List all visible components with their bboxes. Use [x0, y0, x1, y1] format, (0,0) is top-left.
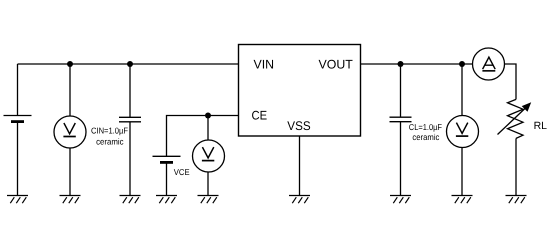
- battery B1 (input supply): [4, 116, 32, 196]
- wire capacitor CL bottom: [400, 122, 402, 196]
- wire RL bottom: [515, 138, 517, 195]
- wire battery drop: [17, 64, 19, 116]
- wire voltmeter V3 top: [461, 64, 463, 116]
- svg-text:VOUT: VOUT: [319, 58, 354, 72]
- wire voltmeter V1 bottom: [69, 148, 71, 196]
- ground (VSS): [289, 196, 310, 204]
- wire voltmeter V2 bottom: [207, 172, 209, 196]
- svg-text:VSS: VSS: [287, 119, 310, 133]
- voltmeter V2 (CE voltage): [193, 140, 225, 172]
- ground (capacitor CIN): [120, 196, 141, 204]
- ground (battery B1): [7, 196, 28, 204]
- resistor RL arrow: [498, 102, 532, 134]
- ground (voltmeter V1): [60, 196, 81, 204]
- voltmeter V3 (output voltage): [447, 116, 479, 148]
- wire CE net (CE pin to VCE battery): [167, 116, 239, 157]
- svg-text:RL: RL: [534, 120, 548, 132]
- capacitor CIN: [119, 117, 141, 122]
- node junction (input bus / voltmeter V1): [67, 61, 73, 67]
- wire input bus (battery to VIN): [18, 63, 239, 65]
- ground (voltmeter V2): [198, 196, 219, 204]
- svg-text:ceramic: ceramic: [96, 136, 124, 146]
- voltmeter V1 (input voltage): [54, 116, 86, 148]
- wire voltmeter V2 top: [207, 116, 209, 141]
- svg-text:CIN=1.0µF: CIN=1.0µF: [91, 126, 128, 136]
- wire voltmeter V3 bottom: [461, 148, 463, 196]
- svg-text:CL=1.0µF: CL=1.0µF: [409, 122, 442, 132]
- ground (capacitor CL): [390, 196, 411, 204]
- IC U1 regulator body: [239, 45, 361, 137]
- ammeter A1 glyph: [482, 57, 495, 71]
- node junction (CE net / voltmeter V2): [205, 113, 211, 119]
- wire capacitor CIN top: [129, 64, 131, 117]
- capacitor CL: [390, 117, 412, 122]
- node junction (output bus / voltmeter V3): [459, 61, 465, 67]
- ground (voltmeter V3): [452, 196, 473, 204]
- wire output bus (VOUT to ammeter): [361, 63, 473, 65]
- ammeter A1 (output current): [473, 48, 505, 80]
- wire ammeter to RL corner: [505, 64, 517, 99]
- wire VSS pin: [299, 136, 301, 196]
- wire capacitor CIN bottom: [129, 122, 131, 196]
- node junction (output bus / capacitor CL): [398, 61, 404, 67]
- svg-text:VIN: VIN: [254, 58, 275, 72]
- voltmeter V2 glyph: [202, 147, 214, 161]
- voltmeter V1 glyph: [63, 123, 75, 137]
- wire capacitor CL top: [400, 64, 402, 117]
- node junction (input bus / capacitor CIN): [127, 61, 133, 67]
- wire voltmeter V1 top: [69, 64, 71, 116]
- ground (RL): [506, 196, 527, 204]
- voltmeter V3 glyph: [456, 123, 468, 137]
- ground (battery VCE): [156, 196, 177, 204]
- resistor RL (variable load) zigzag: [508, 99, 524, 138]
- battery VCE: [153, 156, 181, 195]
- svg-text:VCE: VCE: [174, 167, 190, 177]
- svg-text:CE: CE: [252, 109, 268, 123]
- svg-text:ceramic: ceramic: [412, 132, 440, 142]
